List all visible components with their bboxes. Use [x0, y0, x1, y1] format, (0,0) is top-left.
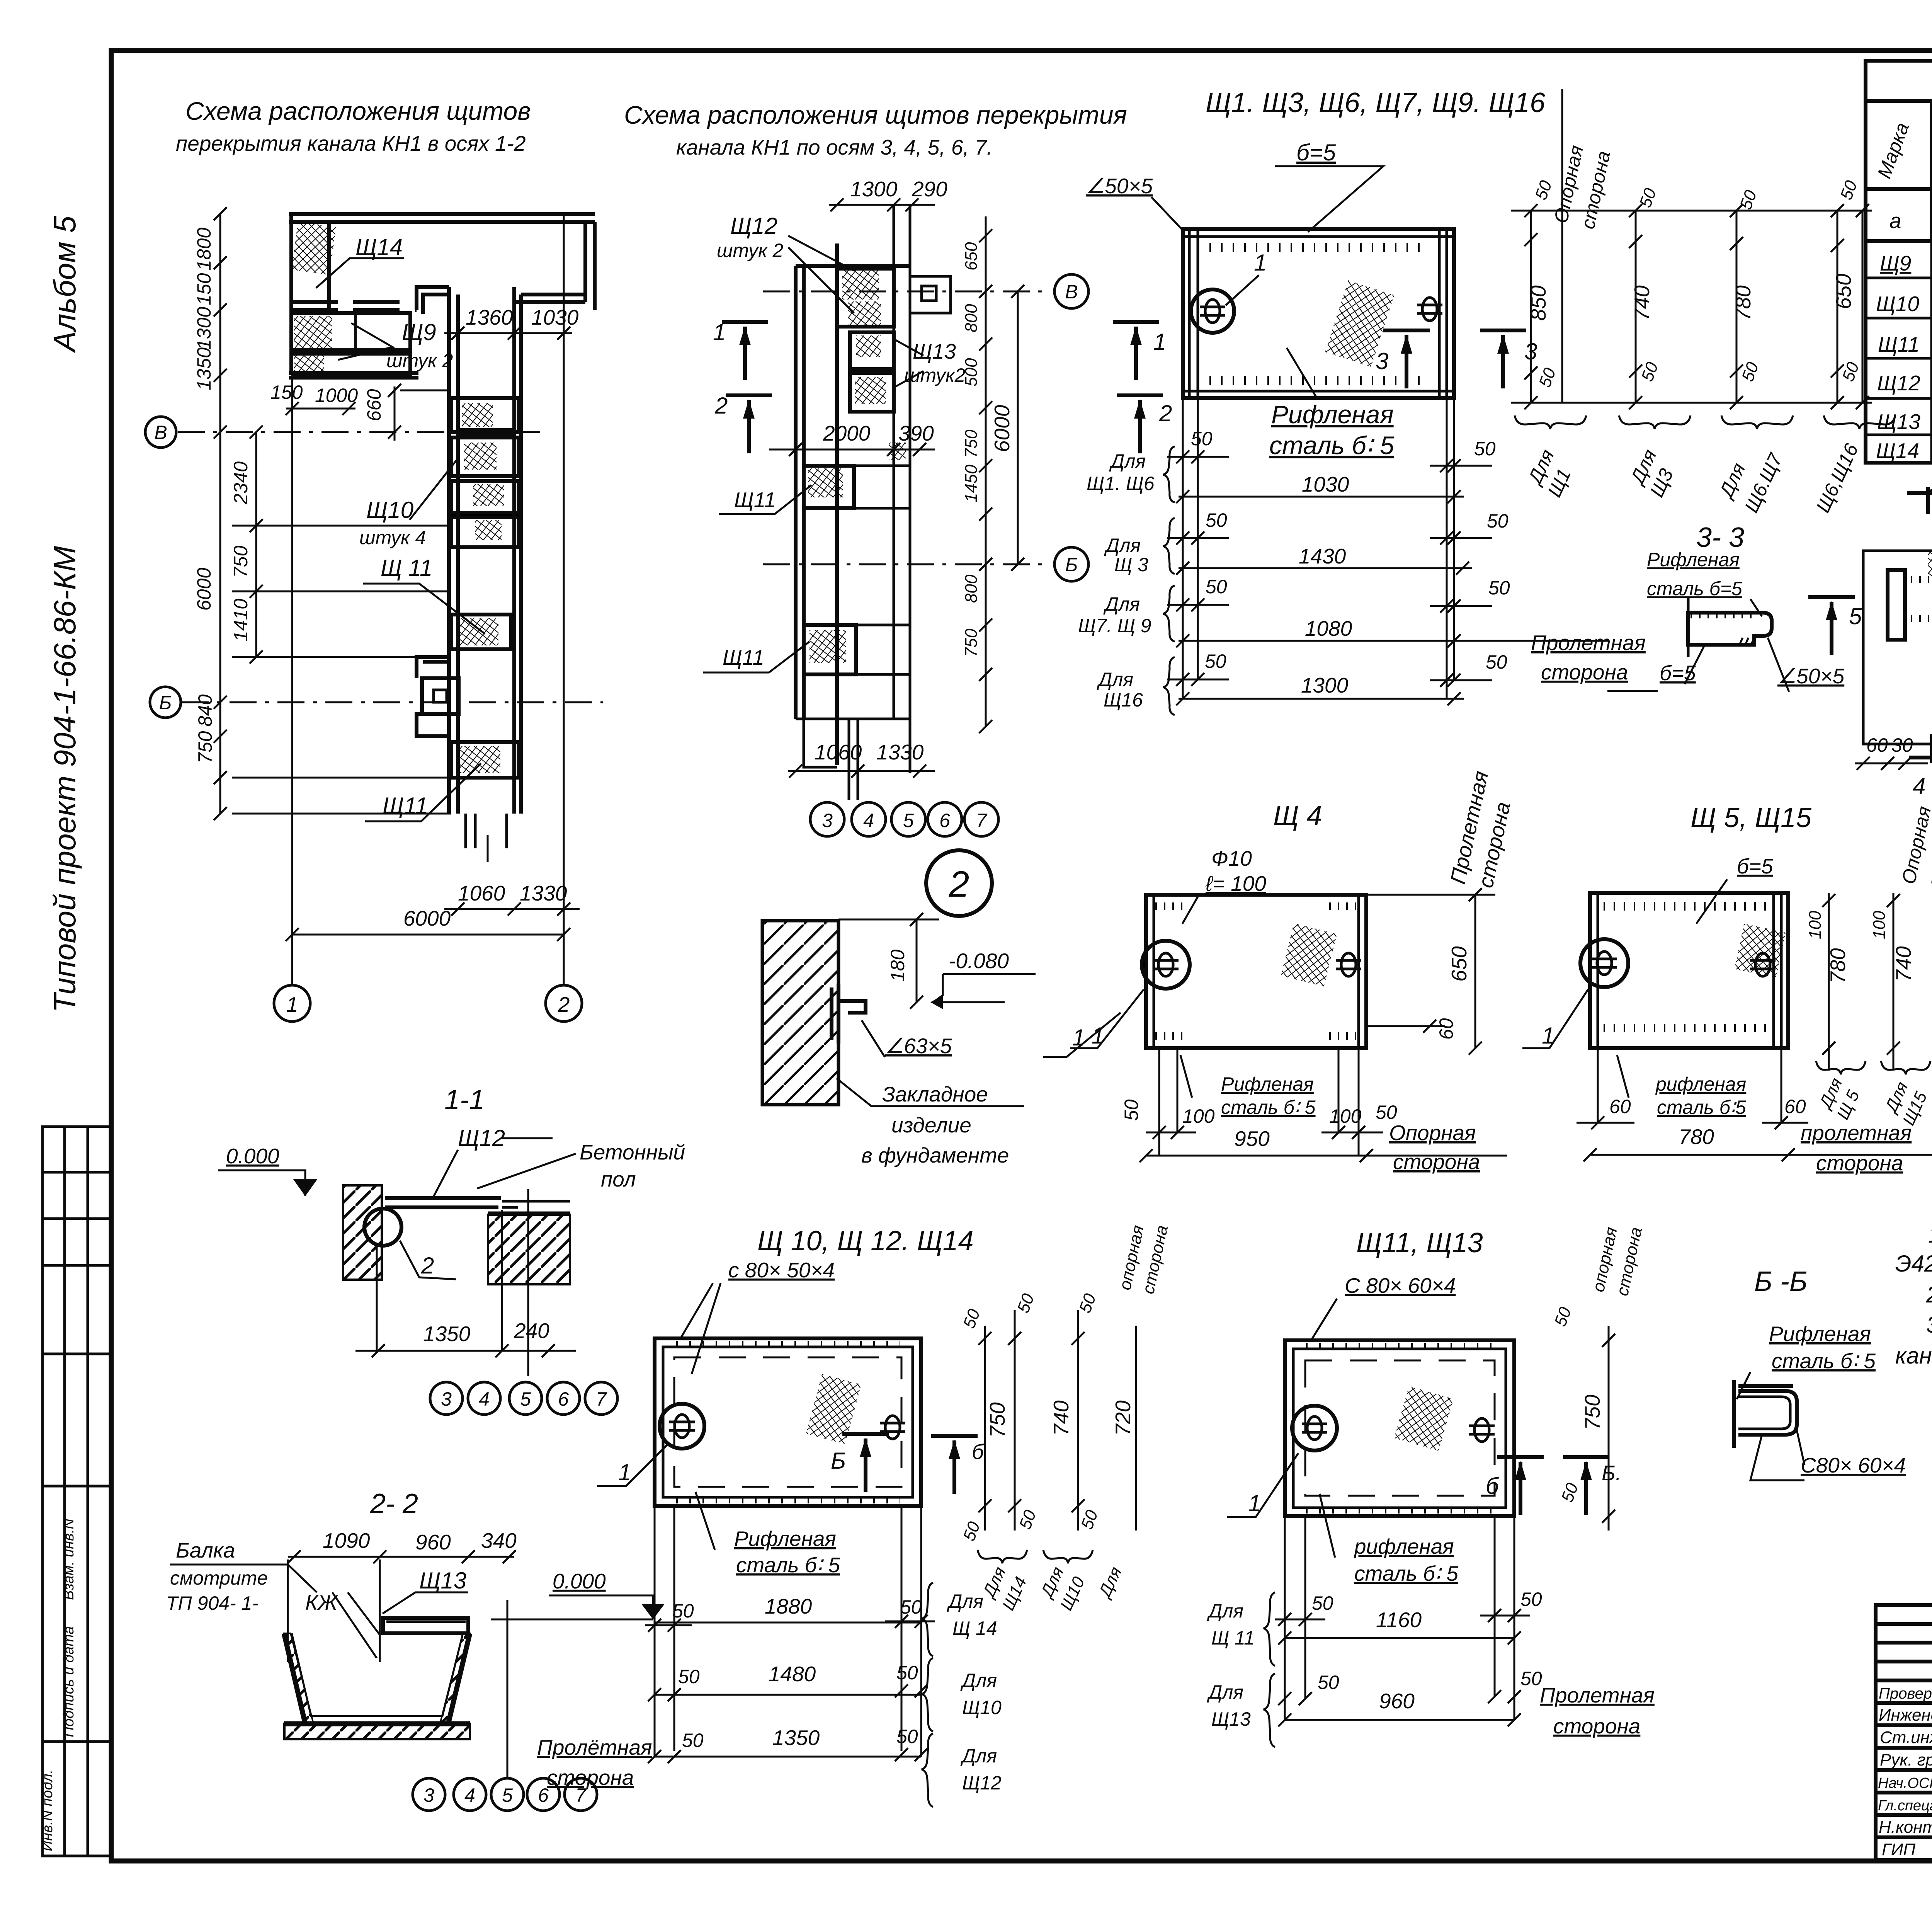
- svg-text:1300: 1300: [850, 177, 898, 201]
- svg-text:750: 750: [962, 429, 981, 458]
- svg-text:Щ14: Щ14: [355, 234, 403, 260]
- svg-text:С80× 60×4: С80× 60×4: [1801, 1453, 1906, 1477]
- svg-text:1160: 1160: [1376, 1608, 1422, 1632]
- svg-text:800: 800: [962, 574, 981, 603]
- svg-text:740: 740: [1630, 285, 1654, 321]
- svg-text:60: 60: [1866, 734, 1888, 756]
- svg-text:750: 750: [985, 1402, 1009, 1438]
- svg-text:60: 60: [1784, 1096, 1806, 1117]
- svg-text:50: 50: [1318, 1672, 1339, 1693]
- svg-text:Взам. инв.N: Взам. инв.N: [61, 1519, 77, 1600]
- svg-text:Щ10: Щ10: [962, 1697, 1002, 1718]
- svg-text:Щ16: Щ16: [1104, 689, 1143, 711]
- svg-text:1060: 1060: [458, 881, 505, 905]
- schema2 plan left wall: [796, 266, 804, 719]
- svg-text:Для: Для: [1104, 535, 1141, 556]
- svg-text:Для: Для: [1097, 669, 1133, 690]
- svg-text:50: 50: [1488, 577, 1510, 599]
- ink blob: [889, 443, 906, 460]
- svg-text:штук 4: штук 4: [359, 527, 426, 548]
- svg-text:Закладное: Закладное: [882, 1082, 988, 1106]
- svg-text:сторона: сторона: [1541, 660, 1628, 684]
- axis circle B right: [1054, 274, 1088, 308]
- braces Для Щ5 / Для Щ15: [1816, 1061, 1866, 1074]
- panel body: [1590, 893, 1788, 1048]
- svg-text:Щ12: Щ12: [1877, 371, 1920, 395]
- svg-text:Щ1. Щ6: Щ1. Щ6: [1087, 473, 1155, 494]
- plan bottom closure of Щ9 block: [289, 373, 418, 378]
- svg-text:5: 5: [1849, 603, 1862, 629]
- svg-text:Для: Для: [1103, 593, 1140, 615]
- panel body double frame: [655, 1338, 921, 1506]
- svg-text:0.000: 0.000: [553, 1569, 606, 1593]
- svg-text:сторона: сторона: [547, 1765, 634, 1789]
- svg-text:∠50×5: ∠50×5: [1777, 664, 1845, 688]
- weld tick rows: [1306, 1343, 1495, 1349]
- svg-text:50: 50: [896, 1726, 918, 1747]
- schema2 column lines: [894, 205, 910, 773]
- svg-text:Гл.спецго: Гл.спецго: [1878, 1798, 1932, 1814]
- svg-text:Щ12: Щ12: [962, 1772, 1002, 1794]
- bolt in circle: [1292, 1406, 1337, 1451]
- svg-text:б: б: [972, 1440, 985, 1464]
- svg-text:Б: Б: [159, 692, 172, 713]
- dim 650 right: [1475, 895, 1476, 1048]
- svg-text:1430: 1430: [1299, 544, 1346, 568]
- svg-text:канала КН1 по осям 3, 4, 5, 6: канала КН1 по осям 3, 4, 5, 6, 7.: [676, 135, 993, 159]
- svg-text:в фундаменте: в фундаменте: [861, 1143, 1009, 1167]
- svg-text:6000: 6000: [403, 906, 451, 930]
- svg-text:650: 650: [1832, 274, 1855, 309]
- legs below: [1159, 1048, 1359, 1156]
- section mark 3 inner: [1383, 330, 1430, 388]
- right hatched block: [488, 1215, 570, 1284]
- svg-text:50: 50: [900, 1596, 922, 1618]
- axis B line right: [763, 291, 1043, 293]
- svg-text:канала qн= 10. 0 кПа (1000 кгс: канала qн= 10. 0 кПа (1000 кгс/м²).: [1895, 1343, 1932, 1369]
- svg-text:б: б: [1486, 1473, 1500, 1499]
- svg-text:Ст.инж.: Ст.инж.: [1880, 1728, 1932, 1747]
- svg-text:150: 150: [193, 273, 215, 305]
- plan wall step to channel: [291, 302, 417, 310]
- svg-text:4: 4: [1913, 773, 1925, 799]
- brace Для Щ12: [922, 1733, 933, 1807]
- svg-text:1330: 1330: [876, 740, 924, 764]
- section mark 2 right: [1117, 395, 1163, 453]
- channel right wall: [514, 287, 521, 814]
- brace Для Щ10: [922, 1658, 933, 1731]
- svg-text:50: 50: [1376, 1102, 1397, 1123]
- svg-text:пролетная: пролетная: [1801, 1121, 1912, 1145]
- svg-text:б=5: б=5: [1296, 140, 1336, 165]
- svg-text:Щ13: Щ13: [1877, 410, 1920, 434]
- section Б marks: [842, 1434, 889, 1492]
- svg-text:смотрите: смотрите: [170, 1567, 268, 1589]
- svg-text:100: 100: [1806, 911, 1825, 939]
- column square at axis Б: [422, 678, 459, 714]
- svg-text:780: 780: [1731, 285, 1755, 321]
- svg-text:2: 2: [421, 1253, 434, 1279]
- brace Для Щ14: [922, 1583, 933, 1656]
- panel legs below: [1183, 398, 1454, 698]
- bolt right: [1750, 953, 1776, 976]
- svg-text:1080: 1080: [1305, 616, 1352, 640]
- svg-text:Щ11: Щ11: [734, 488, 776, 512]
- plan step near column: [417, 657, 449, 678]
- svg-text:рифленая: рифленая: [1655, 1073, 1746, 1095]
- top dim line of chains: [1511, 210, 1872, 212]
- svg-text:1: 1: [1254, 250, 1267, 276]
- svg-text:960: 960: [1379, 1689, 1415, 1713]
- svg-text:Балка: Балка: [176, 1538, 235, 1562]
- svg-text:750: 750: [194, 731, 216, 763]
- svg-text:1. Конструкции сварные. Свар: 1. Конструкции сварные. Сварку производи…: [1928, 1222, 1932, 1248]
- axis line 1: [291, 212, 293, 985]
- top slab: [383, 1618, 468, 1633]
- hatch blob: [1325, 280, 1394, 367]
- svg-text:290: 290: [912, 177, 947, 201]
- weld tick rows: [1604, 902, 1770, 911]
- detail plate plan: [1863, 551, 1932, 744]
- svg-text:1030: 1030: [1302, 472, 1349, 496]
- svg-text:1360: 1360: [466, 305, 513, 329]
- svg-text:50: 50: [672, 1600, 694, 1622]
- svg-text:сталь б=5: сталь б=5: [1647, 578, 1742, 599]
- detail circle 2: [926, 850, 992, 916]
- axis line 2: [563, 212, 565, 985]
- section mark 2 left: [726, 395, 772, 453]
- schema2 bottom stubs: [796, 719, 910, 800]
- svg-text:50: 50: [1191, 428, 1213, 449]
- svg-text:В: В: [154, 422, 167, 443]
- svg-text:Для: Для: [960, 1745, 997, 1767]
- svg-text:100: 100: [1182, 1105, 1215, 1127]
- axis B dash-dot line: [178, 431, 541, 433]
- svg-text:4: 4: [863, 810, 874, 831]
- svg-text:Щ 4: Щ 4: [1273, 800, 1322, 831]
- svg-text:Схема расположения щитов: Схема расположения щитов: [185, 97, 531, 125]
- Б-Б profile: [1732, 1380, 1736, 1448]
- svg-text:2. Приварку ребер осуществля: 2. Приварку ребер осуществлять непрерывн…: [1926, 1282, 1932, 1308]
- svg-text:2: 2: [949, 864, 969, 905]
- panel Щ11 lower block: [804, 625, 856, 674]
- right dim chains 780 740: [1828, 893, 1830, 1071]
- bolt in circle: [1191, 289, 1234, 333]
- svg-text:с 80× 50×4: с 80× 50×4: [728, 1258, 835, 1282]
- corner weld ticks: [1155, 902, 1182, 910]
- weld tick rows top and bottom: [1209, 243, 1430, 252]
- hatch patch Щ14: [291, 222, 336, 275]
- section Б marks: [1497, 1457, 1544, 1515]
- svg-text:1480: 1480: [769, 1662, 816, 1686]
- svg-text:660: 660: [363, 389, 385, 421]
- section mark 1 left: [722, 322, 768, 380]
- svg-text:1410: 1410: [230, 599, 252, 642]
- wall hatch left: [284, 1633, 313, 1724]
- svg-text:Для: Для: [1109, 450, 1146, 472]
- svg-text:3: 3: [441, 1388, 452, 1410]
- svg-text:Нач.ОСПЧ: Нач.ОСПЧ: [1878, 1775, 1932, 1791]
- svg-text:Щ9: Щ9: [402, 319, 436, 345]
- inner dashed rect: [1305, 1360, 1495, 1496]
- bolt in circle: [660, 1404, 704, 1449]
- svg-text:Щ14: Щ14: [1876, 439, 1919, 463]
- svg-text:Щ1. Щ3, Щ6, Щ7, Щ9. Щ16: Щ1. Щ3, Щ6, Щ7, Щ9. Щ16: [1206, 87, 1546, 118]
- braces under chains: [1515, 415, 1586, 429]
- svg-text:б=5: б=5: [1737, 854, 1773, 878]
- panel body: [1285, 1340, 1514, 1516]
- svg-text:50: 50: [1312, 1592, 1333, 1614]
- svg-text:Рук. гр.: Рук. гр.: [1880, 1750, 1932, 1769]
- svg-text:Щ 10, Щ 12. Щ14: Щ 10, Щ 12. Щ14: [757, 1226, 974, 1256]
- svg-text:1: 1: [1092, 1023, 1104, 1049]
- axis circles 3 4 5 6 7: [810, 802, 844, 836]
- svg-text:50: 50: [1486, 651, 1507, 673]
- hatch blob: [1394, 1386, 1454, 1451]
- svg-text:780: 780: [1826, 948, 1850, 984]
- legs verticals: [655, 1506, 921, 1757]
- svg-text:7: 7: [976, 810, 988, 831]
- svg-text:1000: 1000: [315, 385, 358, 406]
- svg-text:Щ 11: Щ 11: [1211, 1627, 1255, 1649]
- svg-text:1300: 1300: [1301, 673, 1349, 697]
- small 50 ticks and labels top: [1524, 233, 1537, 246]
- svg-text:ТП 904- 1-: ТП 904- 1-: [166, 1592, 259, 1614]
- section mark 4 bottom: [1909, 734, 1932, 763]
- channel panel near axis B (dark bar): [451, 398, 519, 432]
- svg-text:780: 780: [1679, 1125, 1714, 1149]
- inner dashed rect: [674, 1357, 901, 1487]
- svg-text:пол: пол: [601, 1167, 636, 1191]
- hatch blob: [806, 1374, 861, 1444]
- svg-text:Опорная: Опорная: [1389, 1121, 1476, 1145]
- right dim verticals with labels: [1530, 211, 1532, 403]
- svg-text:3. Временная нормативная н: 3. Временная нормативная нагрузка на пер…: [1926, 1312, 1932, 1338]
- embedded item detail: foundation wall: [762, 921, 838, 1105]
- brace Для Щ13: [1264, 1674, 1275, 1747]
- svg-text:100: 100: [1870, 911, 1889, 939]
- svg-text:Щ 5, Щ15: Щ 5, Щ15: [1690, 802, 1812, 833]
- svg-text:Щ11: Щ11: [723, 645, 764, 669]
- svg-text:50: 50: [1520, 1668, 1542, 1689]
- svg-text:3: 3: [822, 810, 833, 831]
- svg-text:Рифленая: Рифленая: [1271, 400, 1394, 429]
- section mark 5 up: [1808, 597, 1855, 655]
- bolt right: [1469, 1418, 1495, 1442]
- svg-text:Щ11: Щ11: [1878, 332, 1920, 356]
- legs: [1285, 1516, 1514, 1720]
- svg-text:1880: 1880: [765, 1594, 812, 1618]
- channel panel Щ11 hatched: [451, 615, 511, 649]
- svg-text:ГИП: ГИП: [1882, 1840, 1915, 1859]
- weld tick rows: [676, 1341, 900, 1347]
- horizontal ribs of schema2 plan: [804, 466, 910, 674]
- right dim 750: [1608, 1326, 1610, 1531]
- svg-text:Щ13: Щ13: [419, 1568, 466, 1594]
- svg-text:50: 50: [682, 1730, 704, 1751]
- svg-text:Проверил: Проверил: [1879, 1685, 1932, 1702]
- svg-text:4: 4: [464, 1784, 475, 1806]
- dim 180: [916, 919, 918, 1002]
- svg-text:Щ12: Щ12: [730, 213, 777, 239]
- axis circles 3 4 5 6 7 bottom: [507, 1600, 509, 1778]
- svg-text:сталь б∶ 5: сталь б∶ 5: [1772, 1349, 1876, 1373]
- svg-text:изделие: изделие: [891, 1113, 971, 1137]
- plan top-right outline: [514, 295, 585, 302]
- svg-text:штук 2: штук 2: [717, 240, 784, 261]
- svg-text:1: 1: [1153, 329, 1166, 355]
- svg-text:Типовой проект 904-1-66.86-: Типовой проект 904-1-66.86-КМ: [48, 546, 82, 1013]
- svg-text:-0.080: -0.080: [949, 949, 1009, 973]
- svg-text:Б: Б: [1065, 554, 1078, 575]
- svg-text:Щ7. Щ 9: Щ7. Щ 9: [1078, 615, 1151, 637]
- svg-text:ℓ= 100: ℓ= 100: [1205, 872, 1266, 896]
- bolt right: [880, 1416, 905, 1439]
- panel body: [1146, 895, 1366, 1048]
- hatch blob: [1281, 923, 1337, 987]
- svg-text:4: 4: [479, 1388, 490, 1410]
- svg-text:Подпись и дата: Подпись и дата: [61, 1626, 77, 1737]
- right dim chains of Щ10 panel: [984, 1326, 986, 1531]
- axis circle Б: [150, 687, 181, 718]
- svg-text:1: 1: [713, 319, 726, 345]
- svg-text:3- 3: 3- 3: [1696, 522, 1744, 553]
- svg-text:340: 340: [481, 1529, 517, 1553]
- hatch patch channel panel 1: [462, 403, 493, 427]
- svg-text:1300: 1300: [193, 307, 215, 350]
- axis circle Б right: [1054, 547, 1088, 581]
- bolt in circle: [1580, 939, 1628, 987]
- svg-text:Б -Б: Б -Б: [1754, 1266, 1808, 1297]
- svg-text:Пролетная: Пролетная: [1531, 631, 1646, 655]
- svg-text:740: 740: [1891, 946, 1915, 982]
- svg-text:50: 50: [1121, 1099, 1142, 1121]
- svg-text:Пролетная: Пролетная: [1540, 1683, 1655, 1707]
- svg-text:Щ 11: Щ 11: [381, 555, 432, 581]
- axis circles 3 4 5 6 7: [430, 1382, 463, 1415]
- svg-text:240: 240: [514, 1319, 549, 1343]
- svg-text:Для: Для: [1207, 1600, 1243, 1622]
- svg-text:500: 500: [962, 358, 981, 386]
- svg-text:60: 60: [1609, 1096, 1631, 1117]
- svg-text:∠63×5: ∠63×5: [885, 1034, 952, 1058]
- channel panel Щ11 lower: [451, 742, 519, 778]
- bolt right: [1336, 953, 1361, 976]
- svg-text:2- 2: 2- 2: [370, 1488, 418, 1519]
- channel panel 2: [451, 438, 519, 476]
- svg-text:1350: 1350: [193, 347, 215, 390]
- svg-text:сталь б∶ 5: сталь б∶ 5: [1221, 1096, 1316, 1118]
- svg-text:850: 850: [1526, 285, 1550, 321]
- svg-text:720: 720: [1111, 1400, 1135, 1436]
- svg-text:6000: 6000: [990, 405, 1014, 452]
- svg-text:800: 800: [962, 304, 981, 332]
- svg-text:сталь б∶ 5: сталь б∶ 5: [736, 1553, 840, 1577]
- svg-text:штук 2: штук 2: [386, 350, 453, 371]
- svg-text:сталь б∶ 5: сталь б∶ 5: [1354, 1561, 1458, 1585]
- svg-text:Пролётная: Пролётная: [537, 1735, 652, 1759]
- svg-text:Щ11: Щ11: [383, 793, 428, 819]
- svg-text:Н.контр: Н.контр: [1879, 1818, 1932, 1837]
- svg-text:1350: 1350: [772, 1726, 820, 1750]
- panel body: [1183, 229, 1454, 398]
- axis Б line right: [763, 564, 1043, 565]
- svg-text:1800: 1800: [193, 228, 215, 271]
- channel left wall: [449, 287, 458, 814]
- svg-text:1450: 1450: [962, 465, 981, 502]
- signature rows text: [1878, 1679, 1932, 1859]
- svg-text:Схема расположения щитов пер: Схема расположения щитов перекрытия: [624, 100, 1127, 129]
- svg-text:сталь б∶ 5: сталь б∶ 5: [1269, 431, 1394, 460]
- svg-text:6000: 6000: [193, 568, 215, 611]
- floor slab: [385, 1198, 501, 1207]
- svg-text:Б.: Б.: [1602, 1461, 1621, 1485]
- svg-text:740: 740: [1049, 1400, 1073, 1436]
- plan wall: panel column Щ14: [291, 214, 329, 375]
- svg-text:7: 7: [596, 1388, 607, 1410]
- channel lower stub: [466, 814, 507, 848]
- svg-text:Ф10: Ф10: [1211, 846, 1252, 870]
- svg-text:5: 5: [903, 810, 914, 831]
- svg-text:3: 3: [1376, 348, 1388, 374]
- hatch blob: [1735, 924, 1786, 978]
- legs: [1598, 1048, 1781, 1123]
- schema2 plan top outline: [796, 243, 910, 765]
- svg-text:840: 840: [194, 694, 216, 727]
- secondary dim chain: [255, 432, 257, 657]
- svg-text:Э42 по гост 9467- 75.: Э42 по гост 9467- 75.: [1895, 1251, 1932, 1277]
- svg-text:390: 390: [898, 421, 934, 445]
- bolt circle: [364, 1209, 401, 1246]
- svg-text:3: 3: [423, 1784, 434, 1806]
- svg-text:1030: 1030: [531, 305, 579, 329]
- small square on axis B: [910, 276, 951, 313]
- svg-text:Б: Б: [831, 1448, 846, 1474]
- svg-text:6: 6: [939, 810, 950, 831]
- svg-text:∠50×5: ∠50×5: [1086, 174, 1153, 198]
- svg-text:2: 2: [714, 393, 728, 419]
- svg-text:6: 6: [558, 1388, 569, 1410]
- svg-text:1: 1: [286, 993, 298, 1016]
- svg-text:1330: 1330: [520, 881, 567, 905]
- svg-text:750: 750: [230, 545, 252, 578]
- svg-text:Инженер: Инженер: [1879, 1706, 1932, 1725]
- svg-text:1060: 1060: [815, 740, 862, 764]
- svg-text:100: 100: [1329, 1105, 1362, 1127]
- section mark 1 right: [1113, 322, 1159, 380]
- right dim chain 6000: [1017, 291, 1019, 564]
- channel trough cross-section: [284, 1633, 470, 1724]
- embedded angle bracket: [832, 984, 866, 1044]
- bolt right: [1417, 298, 1442, 321]
- panel Щ11 upper block: [804, 466, 854, 508]
- svg-text:Щ11, Щ13: Щ11, Щ13: [1356, 1227, 1483, 1258]
- braces and rotated Для labels right chain: [978, 1550, 1027, 1563]
- svg-text:1-1: 1-1: [444, 1084, 485, 1115]
- channel panel 4: [451, 517, 519, 547]
- svg-text:950: 950: [1234, 1127, 1270, 1151]
- svg-text:Щ10: Щ10: [1876, 292, 1919, 316]
- 3-3 channel profile: [1688, 613, 1772, 645]
- svg-text:50: 50: [1520, 1588, 1542, 1610]
- svg-text:50: 50: [678, 1666, 700, 1687]
- svg-text:рифленая: рифленая: [1354, 1534, 1454, 1558]
- svg-text:0.000: 0.000: [226, 1144, 279, 1168]
- svg-text:Рифленая: Рифленая: [1221, 1073, 1314, 1095]
- section mark 4 top: [1907, 487, 1932, 514]
- hatch patch Щ9 upper: [294, 316, 332, 348]
- bottom dim line of chains: [1511, 402, 1872, 404]
